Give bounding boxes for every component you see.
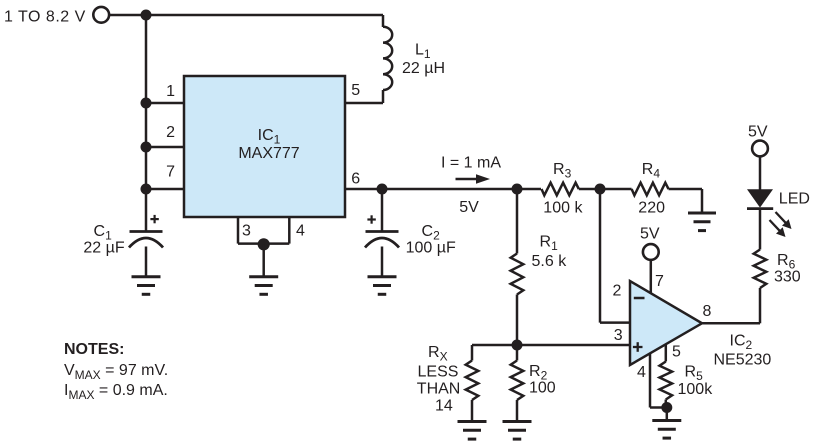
svg-text:3: 3 bbox=[242, 223, 251, 240]
svg-text:100: 100 bbox=[529, 380, 556, 397]
svg-text:5V: 5V bbox=[459, 199, 479, 216]
svg-text:220: 220 bbox=[638, 199, 665, 216]
svg-text:5V: 5V bbox=[640, 226, 660, 243]
svg-text:LESS: LESS bbox=[418, 363, 459, 380]
svg-text:1: 1 bbox=[166, 83, 175, 100]
svg-text:4: 4 bbox=[296, 223, 305, 240]
svg-text:6: 6 bbox=[351, 170, 360, 187]
svg-text:LED: LED bbox=[779, 191, 810, 208]
svg-text:MAX777: MAX777 bbox=[238, 145, 299, 162]
svg-text:8: 8 bbox=[703, 303, 712, 320]
svg-text:I = 1 mA: I = 1 mA bbox=[441, 155, 501, 172]
svg-text:THAN: THAN bbox=[417, 380, 461, 397]
svg-text:100 µF: 100 µF bbox=[406, 239, 456, 256]
svg-text:5V: 5V bbox=[748, 124, 768, 141]
svg-text:NE5230: NE5230 bbox=[714, 352, 772, 369]
svg-text:5.6 k: 5.6 k bbox=[532, 253, 568, 270]
svg-text:14: 14 bbox=[435, 398, 453, 415]
svg-text:22 µH: 22 µH bbox=[402, 60, 445, 77]
svg-text:5: 5 bbox=[672, 344, 681, 361]
svg-text:2: 2 bbox=[613, 283, 622, 300]
svg-text:7: 7 bbox=[166, 164, 175, 181]
svg-text:100 k: 100 k bbox=[543, 199, 583, 216]
svg-text:100k: 100k bbox=[678, 381, 714, 398]
svg-text:22 µF: 22 µF bbox=[83, 239, 124, 256]
svg-text:7: 7 bbox=[655, 273, 664, 290]
svg-text:3: 3 bbox=[614, 327, 623, 344]
svg-text:2: 2 bbox=[166, 124, 175, 141]
svg-text:NOTES:: NOTES: bbox=[64, 341, 124, 358]
svg-text:5: 5 bbox=[351, 82, 360, 99]
svg-text:1 TO 8.2 V: 1 TO 8.2 V bbox=[4, 9, 86, 26]
svg-text:330: 330 bbox=[774, 269, 801, 286]
svg-text:4: 4 bbox=[637, 364, 646, 381]
